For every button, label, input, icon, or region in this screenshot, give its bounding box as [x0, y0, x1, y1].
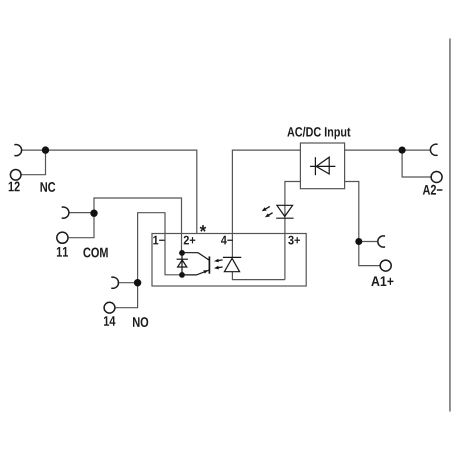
dark edge bar right: [449, 39, 451, 412]
opto light arrow 2 head: [214, 266, 219, 270]
bridge rectifier diode bar: [314, 157, 316, 175]
LED light arrow 2 head: [265, 213, 270, 217]
terminal clamp arc 11: [62, 207, 69, 218]
diode D3 triangle: [224, 258, 239, 271]
label A1+: [371, 276, 393, 286]
label NO: [133, 317, 148, 327]
wire terminal 12 to junction: [21, 150, 45, 175]
junction node 12/NC: [42, 146, 49, 153]
diode D1 vertical lead: [181, 253, 183, 275]
wire diode D3 bottom to pin 3+ rail: [232, 272, 285, 280]
junction node A2: [399, 147, 406, 154]
pin label 3+: [288, 236, 300, 245]
wire NC rail top: [22, 150, 197, 233]
junction node 11/COM: [90, 210, 97, 217]
bridge rectifier diode triangle: [316, 157, 329, 174]
phototransistor Q1 collector: [182, 253, 209, 261]
AC/DC bridge box: [300, 143, 344, 189]
wire A2 junction down to circle: [402, 150, 431, 177]
diode D1 triangle: [178, 260, 187, 267]
LED light arrow 1 head: [262, 207, 267, 211]
wire pin 3+ riser through LED to bridge left bottom: [285, 182, 301, 280]
wire NO junction up over to pin 1-: [138, 213, 182, 283]
pin label 1-: [153, 236, 164, 245]
diode D3 cathode bar: [223, 256, 241, 258]
pin label 2+: [184, 236, 196, 245]
terminal clamp arc A1: [378, 236, 385, 247]
junction node 14/NO: [134, 279, 141, 286]
optocoupler box U1: [152, 234, 306, 287]
wire pin 4- riser to bridge left top: [232, 150, 300, 233]
terminal screw circle A2: [431, 172, 442, 183]
terminal clamp arc 14: [111, 277, 118, 288]
LED light arrow 1 line: [265, 206, 270, 209]
terminal screw circle A1: [380, 260, 391, 271]
bridge rectifier diode line: [310, 165, 335, 167]
phototransistor emitter arrow head: [203, 270, 208, 273]
wire pin 4- inside box to diode: [231, 234, 233, 258]
diode D1 cathode bar: [177, 258, 188, 260]
label A2-: [423, 185, 443, 195]
wire NO arc to junction: [118, 282, 138, 284]
opto light arrow 1 head: [214, 259, 219, 263]
wire bridge right bottom to A1 junction: [345, 182, 359, 242]
LED triangle: [277, 205, 293, 216]
wire terminal 11 circle to junction: [68, 213, 94, 238]
terminal screw circle 12: [10, 170, 21, 181]
label COM: [83, 248, 107, 258]
label AC/DC Input: [287, 127, 350, 140]
wire bridge right top to A2: [345, 149, 430, 151]
wire COM arc to junction: [70, 212, 95, 214]
terminal clamp arc 12: [14, 145, 21, 156]
terminal screw circle 11: [57, 232, 68, 243]
opto light arrow 2 line: [218, 266, 223, 269]
wire A1 junction down to circle: [359, 242, 380, 266]
phototransistor Q1 emitter: [182, 270, 209, 275]
pin label 4-: [221, 236, 233, 245]
label 12: [9, 182, 20, 192]
LED light arrow 2 line: [268, 213, 272, 216]
opto light arrow 1 line: [218, 259, 223, 262]
LED cathode bar: [276, 217, 293, 219]
phototransistor Q1 base bar: [208, 256, 210, 273]
wire terminal 14 circle to junction: [115, 283, 137, 308]
wire A1 junction to arc: [359, 241, 378, 243]
terminal screw circle 14: [104, 302, 115, 313]
footnote asterisk: [200, 225, 207, 232]
wire COM junction up and right into pin 2+: [94, 198, 182, 253]
label NC: [41, 182, 56, 192]
terminal clamp arc A2: [430, 144, 437, 155]
junction node A1: [355, 238, 362, 245]
junction node opto bottom: [179, 272, 185, 278]
junction node opto top: [179, 250, 185, 256]
label 14: [104, 316, 115, 326]
label 11: [57, 247, 68, 257]
